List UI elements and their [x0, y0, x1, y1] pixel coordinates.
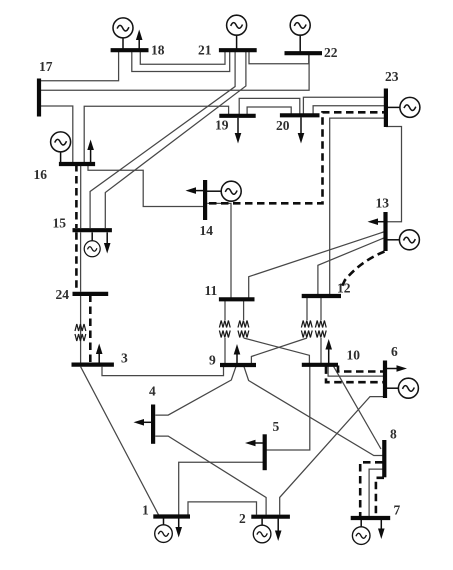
svg-text:3: 3 — [121, 351, 128, 366]
load arrow bus 9 — [236, 353, 238, 364]
bus 21 — [219, 48, 257, 52]
wire 20-23 circuit 2 — [313, 106, 384, 114]
load arrow bus 19 — [237, 118, 239, 135]
generator at bus 6 — [387, 387, 400, 389]
svg-text:22: 22 — [324, 45, 338, 60]
transformer 3-24 — [75, 324, 86, 341]
wire 1-5 — [179, 462, 263, 515]
bus 15 — [73, 228, 112, 232]
svg-text:9: 9 — [209, 353, 216, 368]
svg-text:10: 10 — [347, 348, 361, 363]
load arrow bus 18 — [138, 38, 140, 49]
svg-text:15: 15 — [53, 216, 67, 231]
wire 21-22 — [249, 52, 309, 64]
load arrow bus 5 — [254, 442, 264, 444]
generator at bus 13 — [387, 239, 400, 241]
load arrow bus 10 — [328, 348, 330, 364]
wire 15-21 circuit 1 — [90, 52, 235, 228]
generator at bus 18 — [122, 38, 124, 49]
wire 12-13 — [318, 238, 385, 295]
wire 2-6 — [280, 397, 384, 515]
wire 10-12 transformer branch — [320, 298, 322, 364]
transformer 10-11 — [238, 321, 249, 338]
bus 3 — [72, 363, 114, 367]
load arrow bus 1 — [178, 518, 180, 529]
svg-text:19: 19 — [215, 118, 229, 133]
bus 6 — [383, 361, 387, 399]
wire 7-8 — [369, 469, 382, 516]
dashed line 3-24 — [89, 295, 92, 365]
wire 19-20 circuit 2 — [247, 107, 291, 114]
dashed line 15-24 — [75, 232, 78, 293]
wire 17-22 — [41, 55, 309, 90]
svg-text:21: 21 — [198, 43, 212, 58]
wire 15-24 — [80, 232, 82, 291]
transformer 9-12 — [301, 321, 312, 338]
wire 1-3 — [81, 367, 159, 515]
bus 22 — [285, 51, 323, 55]
svg-text:14: 14 — [200, 223, 214, 238]
bus 12 — [302, 294, 341, 298]
wire 4-9 — [155, 367, 236, 415]
wire 11-14 — [207, 203, 231, 297]
svg-text:12: 12 — [337, 281, 351, 296]
svg-text:23: 23 — [385, 69, 399, 84]
load arrow bus 7 — [380, 520, 382, 531]
generator at bus 1 — [163, 518, 165, 525]
bus 7 — [351, 516, 391, 520]
wire 13-23 — [386, 127, 402, 222]
svg-text:1: 1 — [142, 503, 149, 518]
wire 19-20 circuit 1 — [239, 98, 300, 114]
load arrow bus 13 — [376, 221, 384, 223]
transformer 10-12 — [315, 321, 326, 338]
dashed line 6-10 circuit 1 — [338, 366, 383, 372]
wire 14-16 — [88, 166, 203, 207]
svg-text:8: 8 — [390, 427, 397, 442]
wire 16-19 — [84, 106, 228, 162]
load arrow bus 15 — [106, 232, 108, 245]
svg-text:13: 13 — [376, 196, 390, 211]
generator at bus 23 — [388, 106, 401, 108]
bus 16 — [59, 162, 95, 166]
generator at bus 15 — [91, 232, 93, 241]
bus 5 — [263, 434, 267, 470]
bus 24 — [73, 292, 109, 296]
wire 9-12 transformer branch — [251, 298, 307, 364]
svg-text:18: 18 — [151, 43, 165, 58]
wire 20-23 circuit 1 — [303, 97, 384, 113]
load arrow bus 4 — [142, 421, 152, 423]
generator at bus 22 — [299, 35, 301, 52]
load arrow bus 6 — [387, 368, 399, 370]
wire 15-21 circuit 2 — [105, 52, 246, 228]
bus 13 — [383, 212, 387, 251]
wire 18-21 circuit 2 — [132, 52, 230, 72]
svg-text:11: 11 — [205, 283, 218, 298]
wire 3-9 — [102, 367, 224, 376]
wire 6-10 — [328, 366, 383, 376]
bus 4 — [151, 405, 155, 444]
wire 15-16 — [80, 166, 82, 228]
bus 19 — [219, 114, 255, 118]
wire 1-2 — [188, 502, 257, 515]
bus 23 — [384, 89, 388, 128]
svg-text:24: 24 — [56, 287, 70, 302]
wire 10-11 transformer branch — [244, 301, 310, 363]
bus 17 — [37, 79, 41, 117]
generator at bus 16 — [61, 152, 64, 163]
wire 9-11 transformer branch — [224, 301, 226, 363]
svg-text:2: 2 — [239, 511, 246, 526]
generator at bus 7 — [360, 520, 362, 527]
bus 8 — [382, 440, 386, 477]
wire 8-9 — [244, 367, 383, 456]
load arrow bus 2 — [277, 519, 279, 533]
wire 8-10 — [334, 366, 381, 449]
load arrow bus 16 — [90, 148, 92, 162]
wire 11-13 — [249, 232, 385, 298]
dashed line 7-8 circuit 2 — [376, 478, 384, 516]
load arrow bus 3 — [98, 352, 100, 363]
svg-text:5: 5 — [273, 419, 280, 434]
wire 2-4 — [155, 436, 266, 515]
bus 14 — [203, 180, 207, 220]
load arrow bus 20 — [300, 117, 302, 135]
bus 9 — [220, 363, 256, 367]
bus 20 — [280, 113, 320, 117]
dashed line 6-10 circuit 2 — [326, 366, 383, 382]
bus 10 — [302, 363, 338, 367]
svg-text:6: 6 — [391, 344, 398, 359]
wire 18-21 circuit 1 — [140, 52, 225, 64]
dashed line 7-8 circuit 1 — [360, 462, 382, 516]
wire 16-17 — [41, 106, 73, 162]
generator at bus 14 — [207, 190, 222, 192]
bus 18 — [111, 48, 149, 52]
generator at bus 2 — [261, 519, 263, 526]
transformer 9-11 — [219, 321, 230, 338]
svg-text:16: 16 — [34, 167, 48, 182]
generator at bus 21 — [236, 35, 238, 49]
dashed line 15-16 — [75, 164, 78, 228]
wire 12-23 — [330, 118, 384, 294]
bus 11 — [219, 297, 255, 301]
svg-text:4: 4 — [149, 384, 156, 399]
wire 17-18 — [41, 52, 119, 81]
bus 1 — [153, 514, 190, 518]
svg-text:7: 7 — [394, 503, 401, 518]
svg-text:17: 17 — [39, 59, 53, 74]
bus 2 — [251, 515, 290, 519]
wire 5-10 — [267, 366, 310, 450]
dashed line 14-23 — [209, 112, 384, 203]
load arrow bus 14 — [194, 190, 204, 192]
wire 3-24 transformer branch — [80, 296, 82, 363]
svg-text:20: 20 — [276, 118, 290, 133]
dashed line 12-13 — [341, 252, 385, 290]
